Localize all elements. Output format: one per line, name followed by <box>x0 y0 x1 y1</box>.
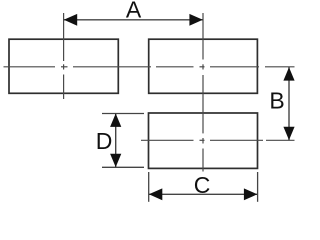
dimension A line <box>64 19 203 21</box>
svg-text:B: B <box>269 88 284 114</box>
svg-text:A: A <box>126 0 142 23</box>
pad P2 (top-right rectangle) <box>149 39 258 93</box>
dimension C right arrowhead <box>244 188 257 200</box>
dimension C left arrowhead <box>149 188 162 200</box>
dimension B top arrowhead <box>283 67 294 80</box>
dimension C extension line left <box>148 172 150 202</box>
svg-text:C: C <box>194 172 211 198</box>
dimension A right arrowhead <box>189 14 202 26</box>
dimension B line <box>288 67 290 140</box>
dimension D line <box>115 113 117 167</box>
dimension C extension line right <box>257 172 259 202</box>
dimension D bottom arrowhead <box>110 154 121 167</box>
pad P1 (top-left rectangle) <box>9 39 118 93</box>
centerline horizontal bottom row <box>141 139 295 141</box>
dimension D extension line bottom <box>102 166 144 168</box>
centerline horizontal top row <box>4 66 295 68</box>
dimension C line <box>149 193 258 195</box>
dimension A left arrowhead <box>64 14 77 26</box>
centerline vertical pad P1 <box>63 13 65 99</box>
dimension B bottom arrowhead <box>283 127 294 140</box>
svg-text:D: D <box>96 128 113 154</box>
dimension D top arrowhead <box>110 114 121 127</box>
centerline vertical pads P2 P3 <box>202 13 204 172</box>
pad P3 (bottom rectangle) <box>149 113 258 168</box>
dimension D extension line top <box>102 113 144 115</box>
